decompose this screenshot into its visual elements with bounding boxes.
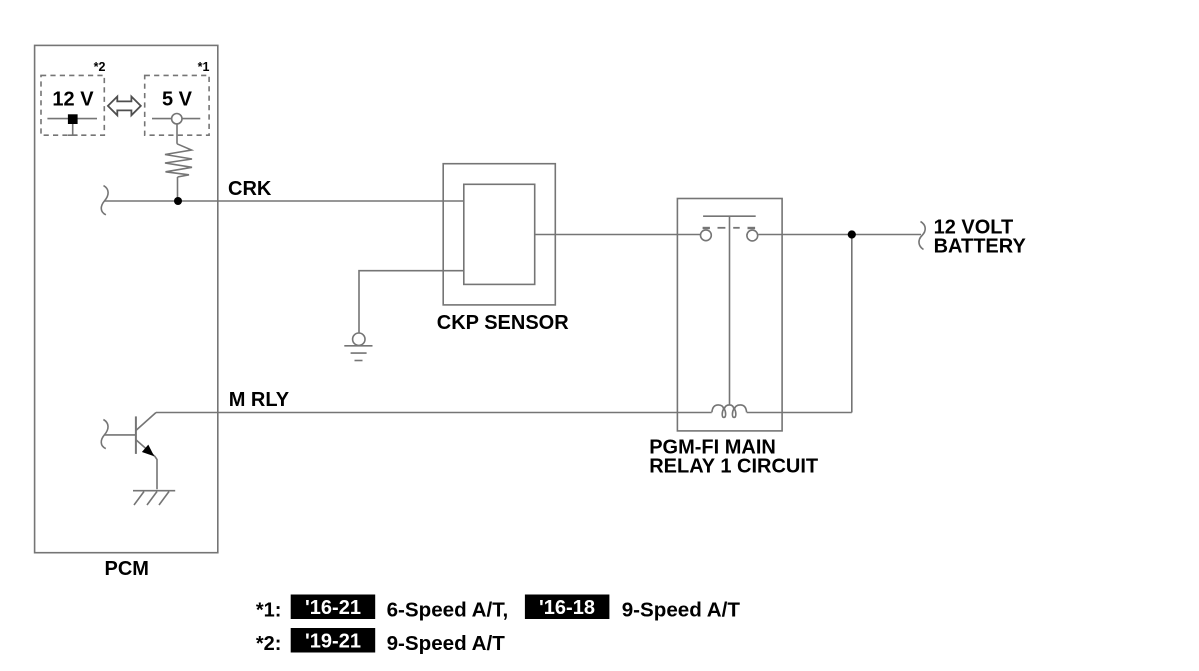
svg-text:9-Speed A/T: 9-Speed A/T [622,599,741,622]
svg-text:9-Speed A/T: 9-Speed A/T [387,632,506,655]
svg-text:RELAY 1 CIRCUIT: RELAY 1 CIRCUIT [649,456,818,478]
svg-text:*1: *1 [198,60,210,74]
svg-text:'16-21: '16-21 [305,597,361,619]
svg-text:5 V: 5 V [162,89,193,111]
svg-text:*2: *2 [94,60,106,74]
svg-text:M RLY: M RLY [229,389,290,411]
svg-text:'19-21: '19-21 [305,631,361,653]
svg-text:12 V: 12 V [52,89,94,111]
svg-text:6-Speed A/T,: 6-Speed A/T, [387,599,509,622]
svg-text:*1:: *1: [256,600,282,622]
svg-text:CRK: CRK [228,178,272,200]
svg-text:CKP SENSOR: CKP SENSOR [437,312,569,334]
svg-text:BATTERY: BATTERY [934,236,1027,258]
svg-text:*2:: *2: [256,633,282,655]
svg-text:PCM: PCM [105,558,149,580]
svg-text:'16-18: '16-18 [539,597,595,619]
